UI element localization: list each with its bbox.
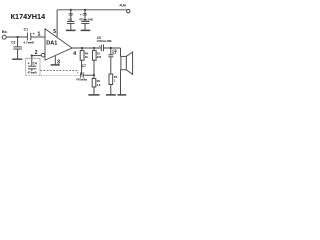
svg-text:С2: С2 xyxy=(11,40,15,44)
svg-text:1: 1 xyxy=(37,32,40,38)
svg-text:С7: С7 xyxy=(82,64,86,68)
svg-text:С5: С5 xyxy=(83,12,87,16)
svg-text:220: 220 xyxy=(97,55,102,59)
svg-text:4,7мкФ: 4,7мкФ xyxy=(23,41,34,45)
svg-text:47мкФ: 47мкФ xyxy=(28,70,38,74)
svg-text:С1: С1 xyxy=(24,27,28,31)
svg-text:0,1: 0,1 xyxy=(112,51,116,55)
svg-text:4: 4 xyxy=(73,51,76,57)
svg-text:0,1: 0,1 xyxy=(68,18,72,22)
svg-text:1000мх16В: 1000мх16В xyxy=(97,39,112,43)
svg-text:R3: R3 xyxy=(114,75,118,79)
svg-text:+: + xyxy=(28,61,30,65)
svg-text:Вх.: Вх. xyxy=(2,30,8,34)
svg-text:К174УН14: К174УН14 xyxy=(11,12,46,21)
svg-text:470м/6в: 470м/6в xyxy=(76,78,87,82)
svg-text:+: + xyxy=(99,44,101,48)
svg-text:С3: С3 xyxy=(69,13,73,17)
svg-text:5: 5 xyxy=(53,29,56,35)
svg-text:+Uп: +Uп xyxy=(119,3,126,7)
svg-text:R4: R4 xyxy=(85,52,89,56)
svg-text:3: 3 xyxy=(57,59,60,65)
svg-text:С4: С4 xyxy=(33,62,37,66)
svg-text:R1: R1 xyxy=(97,52,101,56)
svg-text:DA1: DA1 xyxy=(46,40,57,46)
svg-text:2: 2 xyxy=(35,50,38,56)
svg-text:39: 39 xyxy=(85,55,88,59)
svg-text:+: + xyxy=(33,32,35,36)
svg-text:470мх16В: 470мх16В xyxy=(79,17,93,21)
svg-text:R2: R2 xyxy=(97,79,101,83)
svg-text:2,2: 2,2 xyxy=(97,83,101,87)
svg-text:+: + xyxy=(77,70,79,74)
